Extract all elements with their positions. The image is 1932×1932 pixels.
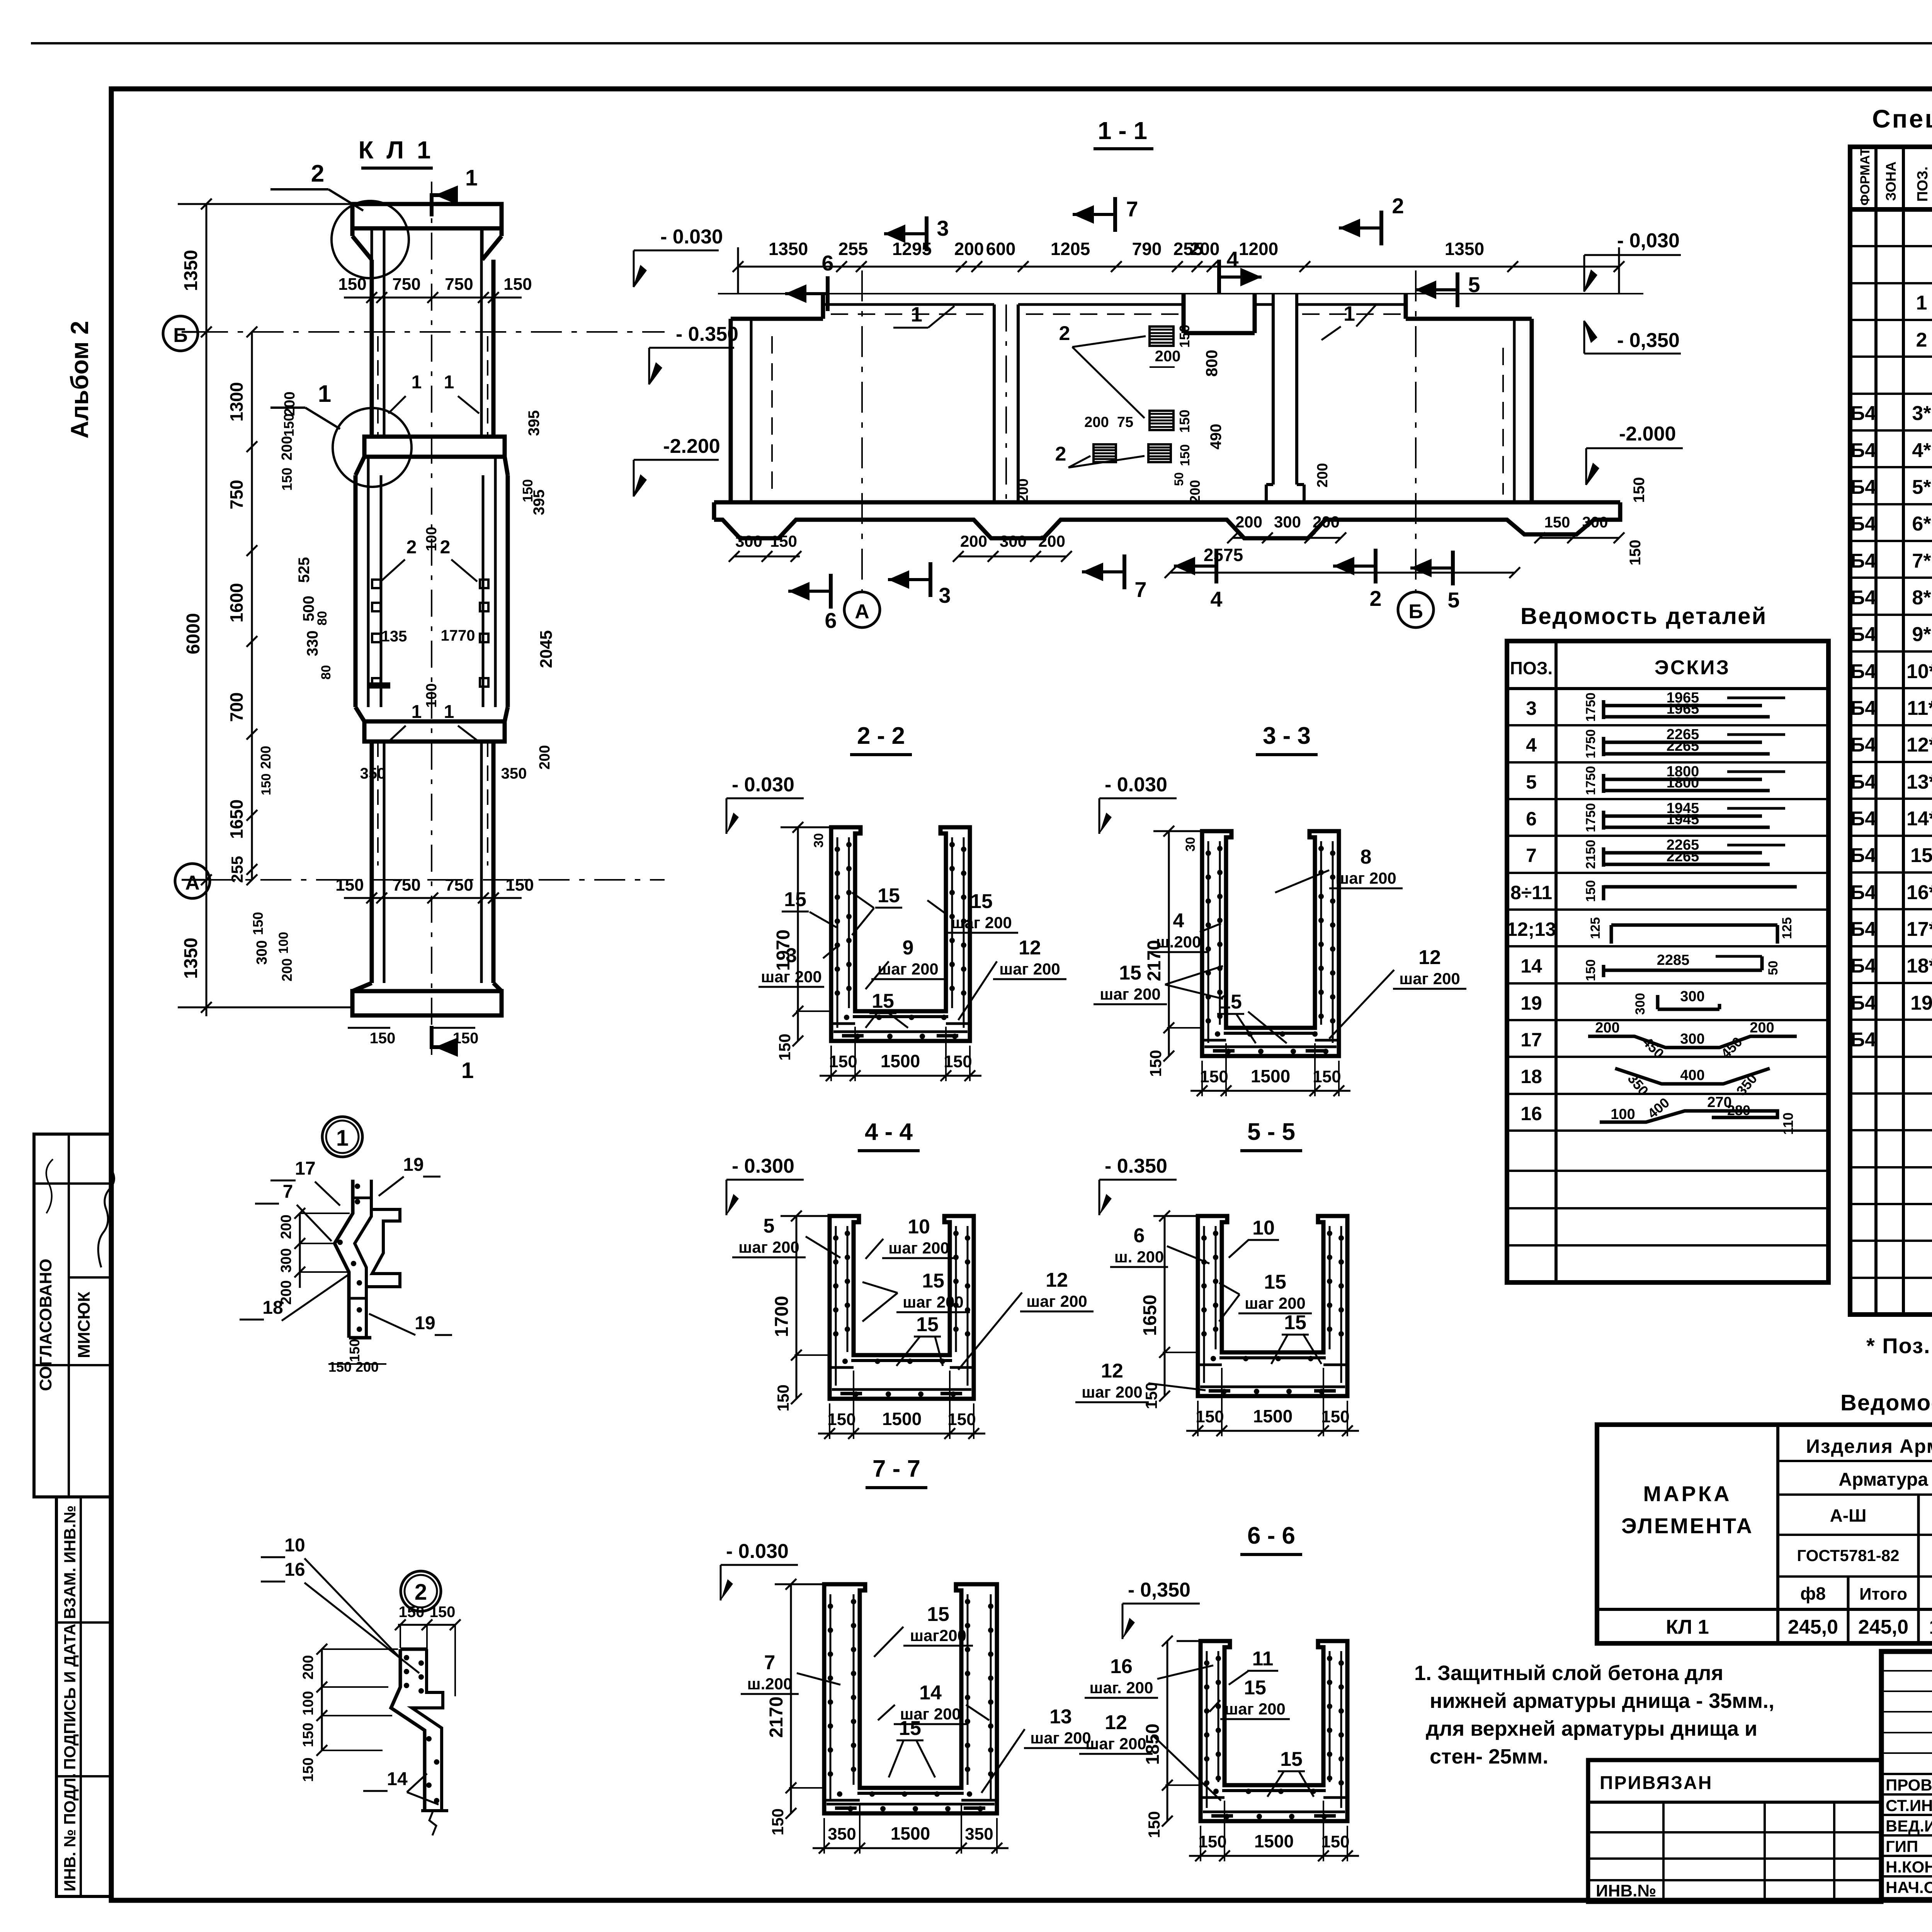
svg-text:2575: 2575 xyxy=(1204,545,1243,565)
svg-text:280: 280 xyxy=(1727,1102,1750,1118)
section 4 - 4 bottom dims xyxy=(818,1433,985,1435)
section 1-1 top notch xyxy=(1182,294,1186,333)
svg-text:19: 19 xyxy=(1910,992,1932,1014)
svg-text:* Поз. 3÷13; 15÷19 см.: * Поз. 3÷13; 15÷19 см. Ведомость деталей… xyxy=(1866,1333,1932,1358)
svg-text:135: 135 xyxy=(381,628,407,645)
svg-text:шаг 200: шаг 200 xyxy=(1245,1294,1306,1312)
svg-text:245,0: 245,0 xyxy=(1788,1616,1838,1638)
svg-text:15: 15 xyxy=(878,884,900,907)
svg-text:1: 1 xyxy=(412,702,422,722)
svg-text:150: 150 xyxy=(776,1034,794,1061)
svg-text:17: 17 xyxy=(295,1158,315,1179)
svg-text:ФОРМАТ: ФОРМАТ xyxy=(1858,148,1872,206)
svg-text:8*: 8* xyxy=(1912,587,1931,609)
svg-text:300: 300 xyxy=(1633,993,1648,1015)
svg-text:ЭЛЕМЕНТА: ЭЛЕМЕНТА xyxy=(1621,1514,1753,1538)
svg-text:100: 100 xyxy=(423,527,440,551)
svg-text:3: 3 xyxy=(786,944,797,967)
svg-text:шаг 200: шаг 200 xyxy=(1225,1700,1286,1718)
svg-text:150: 150 xyxy=(770,532,797,550)
svg-text:12: 12 xyxy=(1046,1269,1068,1291)
svg-text:150: 150 xyxy=(250,912,266,935)
svg-text:395: 395 xyxy=(526,410,543,436)
svg-text:150: 150 xyxy=(338,275,366,294)
svg-text:350: 350 xyxy=(828,1825,856,1844)
detail circle mark 2 xyxy=(401,1571,441,1611)
svg-text:150: 150 xyxy=(281,413,297,437)
svg-text:ГОСТ5781-82: ГОСТ5781-82 xyxy=(1797,1546,1899,1565)
svg-text:2285: 2285 xyxy=(1657,952,1690,968)
svg-text:200: 200 xyxy=(278,1214,294,1239)
plan KL1 centerline xyxy=(431,182,432,1055)
svg-text:- 0,350: - 0,350 xyxy=(1617,329,1680,352)
svg-text:12: 12 xyxy=(1101,1360,1123,1382)
svg-text:12: 12 xyxy=(1418,946,1441,969)
svg-text:12: 12 xyxy=(1019,937,1041,959)
svg-text:150: 150 xyxy=(328,1359,352,1375)
detail 2 wiggle bottom xyxy=(429,1811,436,1835)
svg-text:Б4: Б4 xyxy=(1850,402,1876,425)
sheet outer border xyxy=(31,42,1932,44)
section 7 - 7 concrete outline xyxy=(824,1584,997,1813)
section 7 - 7 bottom dims xyxy=(813,1847,1009,1849)
svg-text:КЛ 1: КЛ 1 xyxy=(1666,1616,1709,1638)
svg-text:1500: 1500 xyxy=(1251,1066,1290,1086)
svg-text:350: 350 xyxy=(360,765,386,782)
svg-text:150: 150 xyxy=(1583,880,1598,902)
svg-text:1500: 1500 xyxy=(881,1051,920,1071)
svg-text:1600: 1600 xyxy=(226,583,247,622)
svg-text:Б: Б xyxy=(173,324,187,347)
plan bottom dims 150 750 750 150 xyxy=(344,897,522,899)
svg-text:1750: 1750 xyxy=(1583,766,1598,795)
svg-text:150: 150 xyxy=(370,1030,396,1047)
svg-text:14: 14 xyxy=(1520,955,1542,977)
svg-text:350: 350 xyxy=(501,765,527,782)
svg-text:ЭСКИЗ: ЭСКИЗ xyxy=(1655,656,1730,679)
section 1-1 floor xyxy=(714,500,1620,505)
svg-text:3: 3 xyxy=(939,583,951,607)
svg-text:200: 200 xyxy=(960,532,987,550)
detail 2 left dims xyxy=(321,1649,323,1750)
svg-text:1350: 1350 xyxy=(1445,239,1484,259)
svg-text:9*: 9* xyxy=(1912,623,1931,646)
svg-text:200: 200 xyxy=(1187,480,1203,503)
svg-text:1: 1 xyxy=(444,702,454,722)
svg-text:2265: 2265 xyxy=(1667,849,1699,865)
plan detail circle 2 xyxy=(332,201,409,278)
svg-text:1945: 1945 xyxy=(1667,811,1699,828)
section 4 - 4 left dims xyxy=(796,1216,798,1399)
svg-text:80: 80 xyxy=(319,665,333,680)
svg-text:200: 200 xyxy=(258,746,274,769)
svg-text:шаг 200: шаг 200 xyxy=(1399,969,1460,988)
svg-text:150: 150 xyxy=(769,1808,787,1835)
svg-text:150: 150 xyxy=(1627,540,1644,566)
section 3 - 3 concrete outline xyxy=(1202,831,1339,1056)
svg-text:2: 2 xyxy=(440,537,451,558)
detail 1 drawing xyxy=(335,1180,353,1338)
svg-text:5: 5 xyxy=(764,1215,775,1237)
svg-text:6: 6 xyxy=(1134,1225,1145,1247)
svg-text:200: 200 xyxy=(355,1359,379,1375)
svg-text:Б4: Б4 xyxy=(1850,1029,1876,1051)
svg-text:1350: 1350 xyxy=(181,938,201,979)
svg-text:ПРИВЯЗАН: ПРИВЯЗАН xyxy=(1600,1773,1713,1793)
svg-text:100: 100 xyxy=(300,1691,316,1715)
svg-text:150: 150 xyxy=(1145,1811,1163,1838)
svg-text:200: 200 xyxy=(954,239,984,259)
svg-text:1: 1 xyxy=(1344,302,1355,325)
svg-text:16*: 16* xyxy=(1906,881,1932,904)
section 1-1 embedded wall 2 xyxy=(1272,294,1275,485)
svg-text:150: 150 xyxy=(1142,1382,1160,1409)
svg-text:330: 330 xyxy=(304,631,321,656)
svg-text:1965: 1965 xyxy=(1667,701,1699,717)
svg-text:490: 490 xyxy=(1207,424,1225,450)
section 2 - 2 concrete outline xyxy=(831,827,970,1041)
plan left dim chain outer xyxy=(206,204,207,1016)
svg-text:1500: 1500 xyxy=(882,1409,922,1429)
svg-text:200: 200 xyxy=(1038,532,1065,550)
svg-text:1205: 1205 xyxy=(1051,239,1090,259)
detail circle mark 1 xyxy=(322,1117,362,1157)
svg-text:ВЗАМ. ИНВ.№: ВЗАМ. ИНВ.№ xyxy=(61,1505,79,1619)
svg-text:15: 15 xyxy=(1910,844,1932,867)
svg-text:6 - 6: 6 - 6 xyxy=(1247,1522,1295,1549)
svg-text:30: 30 xyxy=(1183,837,1198,852)
svg-text:2: 2 xyxy=(406,537,417,558)
svg-text:150: 150 xyxy=(453,1030,479,1047)
svg-text:150: 150 xyxy=(827,1410,855,1429)
svg-text:10: 10 xyxy=(908,1216,930,1238)
svg-text:200: 200 xyxy=(1750,1020,1774,1036)
svg-text:300: 300 xyxy=(735,532,762,550)
svg-text:- 0.030: - 0.030 xyxy=(1105,774,1167,796)
svg-text:200: 200 xyxy=(1155,348,1181,365)
svg-text:300: 300 xyxy=(278,1248,294,1272)
svg-text:125: 125 xyxy=(1588,917,1603,939)
svg-text:ВЕД.ИНЖ.: ВЕД.ИНЖ. xyxy=(1886,1817,1932,1835)
svg-text:19: 19 xyxy=(403,1155,423,1175)
svg-text:- 0.030: - 0.030 xyxy=(660,226,723,248)
detail 1 dims xyxy=(299,1213,301,1288)
svg-text:2: 2 xyxy=(1059,322,1070,345)
svg-text:800: 800 xyxy=(1202,350,1221,377)
svg-text:12;13: 12;13 xyxy=(1507,918,1556,940)
svg-text:нижней арматуры днища - 35: нижней арматуры днища - 35мм., xyxy=(1430,1689,1774,1713)
svg-text:Б4: Б4 xyxy=(1850,587,1876,609)
svg-text:шаг 200: шаг 200 xyxy=(761,968,822,986)
section 1-1 right step and ledge xyxy=(1404,294,1408,319)
svg-text:17: 17 xyxy=(1520,1029,1542,1051)
svg-text:1: 1 xyxy=(465,165,478,190)
svg-text:150: 150 xyxy=(259,774,274,796)
svg-text:600: 600 xyxy=(986,239,1016,259)
svg-text:150: 150 xyxy=(300,1757,316,1782)
svg-text:Итого: Итого xyxy=(1859,1585,1907,1604)
svg-text:12*: 12* xyxy=(1906,734,1932,756)
svg-text:Б4: Б4 xyxy=(1850,660,1876,683)
svg-text:75: 75 xyxy=(1117,414,1133,430)
section 1-1 right end wall xyxy=(1513,319,1516,502)
svg-text:1770: 1770 xyxy=(441,627,475,644)
svg-text:150: 150 xyxy=(1177,325,1192,348)
svg-text:400: 400 xyxy=(1680,1067,1704,1083)
svg-text:150: 150 xyxy=(503,275,532,294)
svg-text:Б4: Б4 xyxy=(1850,881,1876,904)
svg-text:5: 5 xyxy=(1447,588,1459,612)
svg-text:Ведомость расхода стал: Ведомость расхода стали на элемент, кг. xyxy=(1840,1390,1932,1415)
svg-text:5: 5 xyxy=(1468,272,1480,297)
svg-text:2: 2 xyxy=(1369,586,1381,611)
svg-text:150: 150 xyxy=(300,1723,316,1747)
svg-text:1500: 1500 xyxy=(1253,1406,1293,1426)
svg-text:Б4: Б4 xyxy=(1850,550,1876,572)
svg-text:ПРОВЕР.: ПРОВЕР. xyxy=(1886,1776,1932,1794)
plan section cut 1 bottom xyxy=(430,1026,434,1049)
svg-text:- 0,350: - 0,350 xyxy=(1128,1579,1190,1601)
svg-text:шаг 200: шаг 200 xyxy=(1100,985,1161,1003)
section 7 - 7 left dims xyxy=(790,1584,792,1813)
section 5 - 5 bottom dims xyxy=(1186,1430,1359,1432)
svg-text:1200: 1200 xyxy=(1239,239,1278,259)
sketch row 18 xyxy=(1615,1068,1770,1084)
svg-text:350: 350 xyxy=(965,1825,993,1844)
section 1-1 cut marks top xyxy=(826,276,830,311)
svg-text:150: 150 xyxy=(1544,514,1570,531)
svg-text:Б4: Б4 xyxy=(1850,513,1876,535)
svg-text:750: 750 xyxy=(392,876,420,895)
svg-text:Б4: Б4 xyxy=(1850,992,1876,1014)
section 1-1 left end wall xyxy=(729,319,733,502)
svg-text:3*: 3* xyxy=(1912,402,1931,425)
cut mark 7 top xyxy=(1113,197,1117,232)
svg-text:ПОДПИСЬ И ДАТА: ПОДПИСЬ И ДАТА xyxy=(61,1624,79,1770)
svg-text:ЗОНА: ЗОНА xyxy=(1883,162,1899,201)
svg-text:- 0,030: - 0,030 xyxy=(1617,230,1680,252)
svg-text:125: 125 xyxy=(1780,917,1794,939)
section 1-1 top dimension chain xyxy=(738,266,1619,268)
svg-text:шаг 200: шаг 200 xyxy=(999,960,1060,978)
svg-text:5*: 5* xyxy=(1912,476,1931,498)
svg-text:14: 14 xyxy=(919,1682,942,1704)
plan KL1 outline xyxy=(352,204,502,228)
svg-text:шаг 200: шаг 200 xyxy=(903,1293,964,1311)
svg-text:шаг 200: шаг 200 xyxy=(738,1238,799,1256)
svg-text:18: 18 xyxy=(1520,1066,1542,1087)
section 6 - 6 concrete outline xyxy=(1201,1641,1347,1821)
svg-text:3: 3 xyxy=(1526,697,1537,719)
svg-text:Альбом 2: Альбом 2 xyxy=(66,321,94,439)
svg-text:15: 15 xyxy=(970,890,993,913)
cut mark 3 top xyxy=(925,216,929,251)
svg-text:ш.200: ш.200 xyxy=(1156,933,1201,951)
svg-text:150: 150 xyxy=(335,876,364,895)
svg-text:7 - 7: 7 - 7 xyxy=(872,1456,920,1482)
svg-text:1: 1 xyxy=(336,1126,349,1151)
section 3 - 3 left dims xyxy=(1168,831,1170,1056)
svg-text:Б4: Б4 xyxy=(1850,844,1876,867)
svg-text:А: А xyxy=(185,872,200,894)
svg-text:ш.200: ш.200 xyxy=(747,1675,793,1693)
svg-text:ГИП: ГИП xyxy=(1886,1837,1918,1855)
svg-text:7: 7 xyxy=(764,1651,776,1674)
privyazan block xyxy=(1588,1760,1881,1902)
svg-text:7: 7 xyxy=(283,1182,293,1202)
svg-text:4*: 4* xyxy=(1912,439,1931,462)
detail 2 drawing xyxy=(391,1649,425,1811)
svg-text:Арматура класса: Арматура класса xyxy=(1838,1469,1932,1490)
svg-text:200: 200 xyxy=(1190,239,1220,259)
svg-text:6*: 6* xyxy=(1912,513,1931,535)
title block xyxy=(1881,1651,1932,1900)
svg-text:2045: 2045 xyxy=(537,630,556,668)
section 5 - 5 left dims xyxy=(1164,1216,1166,1396)
svg-text:10: 10 xyxy=(1252,1217,1275,1239)
svg-text:Б4: Б4 xyxy=(1850,955,1876,977)
svg-text:А-Ш: А-Ш xyxy=(1830,1505,1867,1526)
svg-text:Б4: Б4 xyxy=(1850,439,1876,462)
svg-text:100: 100 xyxy=(423,683,440,707)
svg-text:шаг 200: шаг 200 xyxy=(951,913,1012,932)
svg-text:150: 150 xyxy=(947,1410,976,1429)
svg-text:2: 2 xyxy=(1055,443,1066,465)
plan axis A xyxy=(205,879,665,881)
svg-text:150: 150 xyxy=(1196,1407,1224,1426)
svg-text:50: 50 xyxy=(1172,472,1186,486)
svg-text:4: 4 xyxy=(1226,247,1238,271)
svg-text:1750: 1750 xyxy=(1583,803,1598,832)
svg-text:19: 19 xyxy=(1520,992,1542,1014)
svg-text:15: 15 xyxy=(872,990,894,1012)
svg-text:МИСЮК: МИСЮК xyxy=(75,1292,94,1358)
svg-text:1500: 1500 xyxy=(891,1823,930,1844)
svg-text:6: 6 xyxy=(825,608,837,633)
svg-text:Ведомость деталей: Ведомость деталей xyxy=(1520,603,1767,629)
svg-text:15: 15 xyxy=(899,1717,921,1740)
svg-text:1: 1 xyxy=(1916,292,1927,314)
svg-text:1300: 1300 xyxy=(226,382,247,422)
svg-text:- 0.350: - 0.350 xyxy=(1105,1155,1167,1177)
cut mark 4 top xyxy=(1217,260,1221,294)
svg-text:200: 200 xyxy=(279,436,295,460)
svg-text:Изделия Арматурные: Изделия Арматурные xyxy=(1806,1435,1932,1457)
svg-text:150: 150 xyxy=(279,468,295,491)
svg-text:3 - 3: 3 - 3 xyxy=(1263,723,1311,749)
svg-text:1. Защитный слой бетона: 1. Защитный слой бетона для xyxy=(1414,1662,1723,1685)
svg-text:15: 15 xyxy=(922,1270,944,1292)
svg-text:150: 150 xyxy=(1631,477,1648,503)
svg-text:790: 790 xyxy=(1132,239,1162,259)
svg-text:1: 1 xyxy=(412,372,422,393)
svg-text:119,0: 119,0 xyxy=(1929,1616,1932,1638)
svg-text:150: 150 xyxy=(1146,1050,1165,1077)
svg-text:ИНВ. № ПОДЛ.: ИНВ. № ПОДЛ. xyxy=(61,1773,79,1891)
svg-text:150: 150 xyxy=(944,1052,972,1071)
svg-text:А: А xyxy=(855,600,869,623)
svg-text:200: 200 xyxy=(300,1655,316,1679)
svg-text:245,0: 245,0 xyxy=(1858,1616,1908,1638)
svg-text:6: 6 xyxy=(821,251,833,275)
plan left dim chain inner xyxy=(251,332,253,880)
svg-text:5 - 5: 5 - 5 xyxy=(1247,1119,1295,1145)
svg-text:10: 10 xyxy=(284,1535,305,1556)
section 1-1 axis circles xyxy=(861,270,863,591)
section 1-1 embedded items poz 2 xyxy=(1150,327,1173,346)
svg-text:10*: 10* xyxy=(1906,660,1932,683)
section 1-1 cut marks bottom xyxy=(829,574,833,609)
svg-text:СОГЛАСОВАНО: СОГЛАСОВАНО xyxy=(36,1259,55,1391)
svg-text:1750: 1750 xyxy=(1583,729,1598,759)
svg-text:15: 15 xyxy=(927,1603,949,1626)
svg-text:200: 200 xyxy=(279,958,295,981)
svg-text:НАЧ.ОТД.: НАЧ.ОТД. xyxy=(1886,1878,1932,1896)
svg-text:5: 5 xyxy=(1526,771,1537,793)
svg-text:300: 300 xyxy=(1680,1031,1704,1047)
svg-text:14: 14 xyxy=(387,1769,408,1789)
section 1-1 left slab xyxy=(823,303,994,306)
plan section cut 1 top xyxy=(430,193,434,216)
svg-text:для верхней арматуры днища: для верхней арматуры днища и xyxy=(1426,1717,1757,1740)
svg-text:150: 150 xyxy=(774,1384,792,1412)
svg-text:150: 150 xyxy=(1321,1407,1349,1426)
svg-text:1800: 1800 xyxy=(1667,775,1699,791)
svg-text:шаг 200: шаг 200 xyxy=(1030,1729,1091,1747)
svg-text:200: 200 xyxy=(1315,463,1331,487)
left stamp column (СОГЛАСОВАНО block) xyxy=(34,1134,111,1497)
svg-text:15: 15 xyxy=(1280,1748,1303,1770)
svg-text:2: 2 xyxy=(311,160,324,187)
svg-text:шаг200: шаг200 xyxy=(910,1626,966,1645)
svg-text:ПОЗ.: ПОЗ. xyxy=(1915,167,1931,202)
svg-text:255: 255 xyxy=(228,856,246,883)
cut mark 5 top xyxy=(1456,272,1459,307)
svg-text:2 - 2: 2 - 2 xyxy=(857,723,905,749)
svg-text:150: 150 xyxy=(1313,1067,1341,1086)
svg-text:1700: 1700 xyxy=(772,1296,792,1337)
cut mark 2 top xyxy=(1379,211,1383,245)
specification table xyxy=(1850,147,1932,1315)
svg-text:200: 200 xyxy=(1235,513,1262,531)
svg-text:ш. 200: ш. 200 xyxy=(1114,1248,1164,1266)
plan top dims 150 750 750 150 xyxy=(344,297,522,299)
svg-text:1350: 1350 xyxy=(181,250,201,291)
svg-text:- 0.030: - 0.030 xyxy=(732,774,794,796)
svg-text:СТ.ИНЖ.: СТ.ИНЖ. xyxy=(1886,1796,1932,1815)
left stamp column (ВЗАМ/ПОДПИСЬ/ИНВ) xyxy=(56,1497,111,1896)
svg-text:4: 4 xyxy=(1173,910,1184,932)
svg-text:шаг 200: шаг 200 xyxy=(1085,1735,1146,1753)
svg-text:Спецификация к монолитному: Спецификация к монолитному каналу КЛ1 xyxy=(1872,104,1932,133)
svg-text:3: 3 xyxy=(937,216,949,240)
svg-text:4 - 4: 4 - 4 xyxy=(865,1119,913,1145)
svg-text:2170: 2170 xyxy=(766,1697,787,1738)
svg-text:Б4: Б4 xyxy=(1850,918,1876,940)
section 5 - 5 concrete outline xyxy=(1198,1216,1347,1396)
svg-text:395: 395 xyxy=(531,490,548,515)
svg-text:15: 15 xyxy=(1219,991,1242,1013)
svg-text:255: 255 xyxy=(838,239,868,259)
svg-text:Б4: Б4 xyxy=(1850,771,1876,793)
svg-text:ф8: ф8 xyxy=(1800,1583,1826,1604)
svg-text:шаг. 200: шаг. 200 xyxy=(1089,1679,1153,1697)
svg-text:13: 13 xyxy=(1049,1706,1072,1728)
svg-text:16: 16 xyxy=(1520,1103,1542,1124)
svg-text:К Л 1: К Л 1 xyxy=(358,136,434,164)
svg-text:1350: 1350 xyxy=(769,239,808,259)
svg-text:1650: 1650 xyxy=(226,799,247,839)
